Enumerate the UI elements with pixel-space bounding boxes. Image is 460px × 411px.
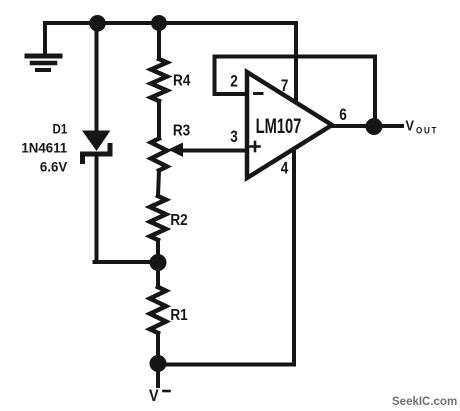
wire output pin 6: [332, 124, 402, 128]
label V- superscript minus: [164, 390, 170, 393]
node E (output): [366, 118, 383, 135]
wire D1 cathode down: [95, 154, 99, 262]
ground: [27, 23, 60, 70]
wire pin 4 supply stub: [292, 149, 296, 365]
potentiometer R3: [151, 139, 167, 171]
wire pin 7 supply stub: [294, 23, 298, 100]
svg-text:6.6V: 6.6V: [40, 159, 67, 174]
label VOUT: [406, 116, 439, 135]
wire feedback left / pin 2 stub: [215, 57, 248, 95]
svg-text:R1: R1: [170, 307, 187, 324]
svg-text:D1: D1: [53, 121, 68, 136]
node C (R2 / R1 / D1 junction): [150, 254, 167, 271]
wire R3 to R2: [158, 171, 159, 197]
wire feedback right: [373, 57, 377, 127]
svg-text:R4: R4: [173, 72, 191, 89]
wire D1 anode: [95, 23, 99, 132]
wire node C to R1: [156, 262, 160, 287]
wire top rail: [45, 21, 296, 25]
op-amp minus input marking: [255, 92, 263, 95]
resistor R4: [151, 59, 167, 101]
svg-text:R3: R3: [173, 123, 190, 140]
zener diode D1: [82, 131, 111, 162]
op-amp U1 LM107: [247, 72, 332, 178]
wire V- stub: [156, 363, 160, 386]
svg-text:V: V: [149, 387, 159, 405]
wire R2 to node C: [156, 240, 160, 262]
svg-text:R2: R2: [170, 212, 187, 229]
svg-text:V: V: [406, 116, 415, 133]
svg-text:4: 4: [281, 159, 289, 178]
wire bottom rail: [158, 363, 294, 367]
wire D1 branch to node C: [95, 260, 159, 264]
node D (bottom rail junction): [150, 355, 167, 372]
node A (top rail / D1): [89, 15, 106, 32]
resistor R2: [150, 196, 166, 240]
svg-text:SeekIC.com: SeekIC.com: [392, 396, 457, 408]
svg-text:LM107: LM107: [256, 114, 302, 137]
wire node B to R4: [157, 23, 161, 59]
op-amp plus input marking: [251, 142, 260, 151]
svg-text:2: 2: [230, 72, 238, 91]
node B (top rail / R4): [151, 15, 167, 31]
wire feedback top: [215, 55, 376, 59]
svg-text:1N4611: 1N4611: [21, 140, 67, 155]
resistor R1: [150, 287, 166, 333]
wire R4 to R3: [157, 101, 161, 139]
svg-text:OUT: OUT: [416, 125, 438, 136]
wire R1 to node D: [156, 333, 160, 363]
wire wiper to pin 3: [182, 149, 247, 153]
pot wiper arrow: [168, 143, 183, 158]
svg-text:7: 7: [281, 77, 289, 96]
svg-text:6: 6: [339, 106, 347, 125]
svg-text:3: 3: [230, 128, 238, 147]
